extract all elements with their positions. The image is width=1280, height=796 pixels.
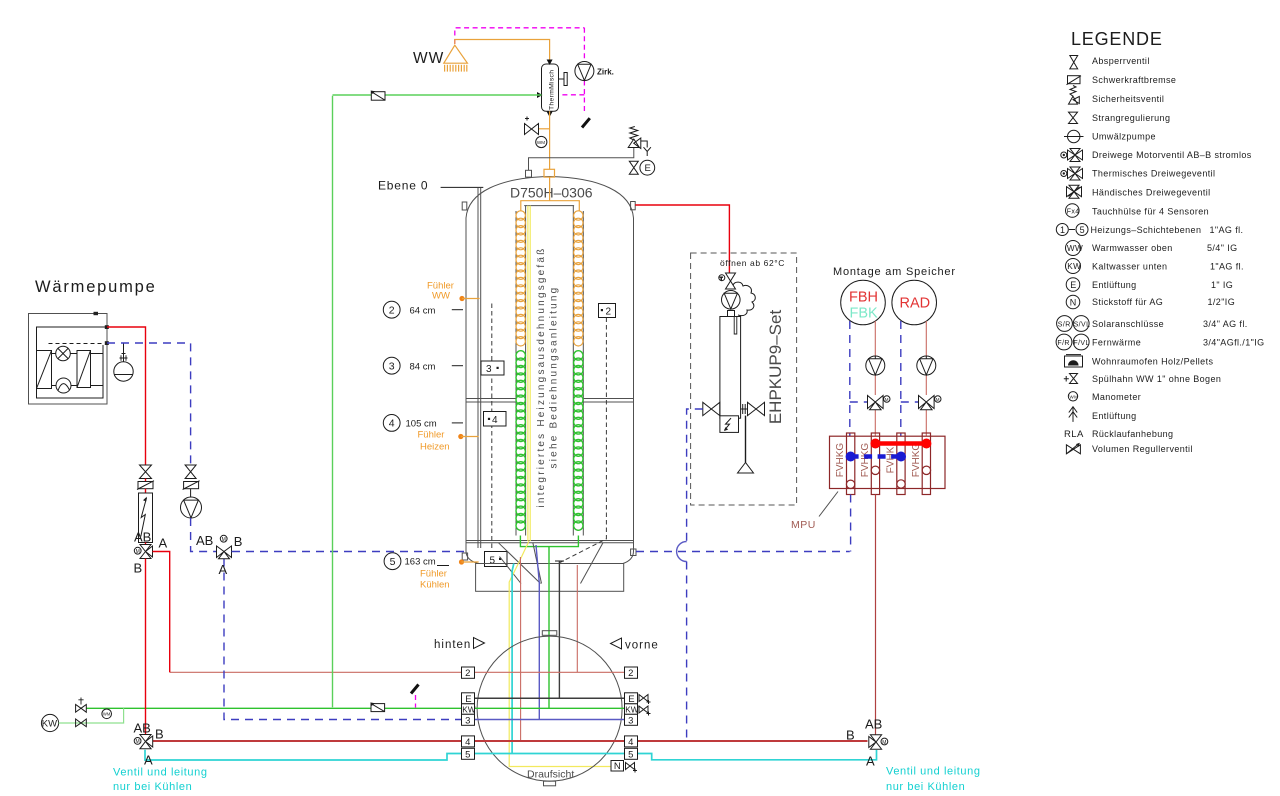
svg-text:3: 3 bbox=[465, 715, 470, 726]
legend icon Tauchhuelse Fx4 bbox=[1066, 204, 1210, 218]
tank side stub bottom-right bbox=[631, 549, 636, 556]
small valve on red feed bbox=[719, 273, 736, 289]
svg-text:1/2"IG: 1/2"IG bbox=[1208, 297, 1236, 307]
wire magenta dashed top: shower to zirk riser bbox=[455, 28, 585, 44]
wire red tank top to EHPKUP bbox=[635, 205, 729, 273]
svg-text:5: 5 bbox=[490, 555, 496, 566]
node E vent circle bbox=[640, 160, 655, 175]
wire blue 3 horizontal inside bbox=[475, 719, 625, 721]
svg-text:AB: AB bbox=[134, 721, 151, 736]
svg-text:Heizungs–Schichtebenen: Heizungs–Schichtebenen bbox=[1091, 225, 1202, 235]
svg-text:nur bei Kühlen: nur bei Kühlen bbox=[886, 781, 965, 791]
svg-text:AB: AB bbox=[196, 533, 213, 548]
sensor box 3 bbox=[481, 361, 504, 375]
wire blue dashed WP return bbox=[107, 343, 191, 465]
svg-text:D750H–0306: D750H–0306 bbox=[510, 185, 593, 201]
valve EHP left bbox=[703, 402, 720, 415]
svg-text:WW: WW bbox=[1067, 244, 1083, 253]
svg-text:5: 5 bbox=[465, 749, 470, 760]
shutoff valve below safety bbox=[629, 161, 638, 174]
check valve blue bbox=[183, 481, 200, 490]
wire blue dashed V2-B right bbox=[231, 551, 234, 553]
wire green KW horizontal inside bbox=[475, 707, 625, 709]
wire red WP supply bbox=[107, 327, 146, 465]
legend icon Schwerkraftbremse bbox=[1067, 75, 1177, 85]
svg-text:163 cm: 163 cm bbox=[405, 557, 436, 568]
svg-text:ThermMisch: ThermMisch bbox=[549, 70, 556, 110]
manometer WM small bbox=[102, 709, 112, 719]
level mark 4 bbox=[383, 415, 463, 432]
svg-text:64 cm: 64 cm bbox=[410, 305, 436, 316]
three-way valve V2 AB-B-A bbox=[196, 533, 242, 577]
svg-text:Thermisches Dreiwegeventil: Thermisches Dreiwegeventil bbox=[1092, 169, 1215, 179]
level mark 2 bbox=[383, 301, 463, 318]
legend icon KW circle bbox=[1066, 259, 1244, 274]
wire red V1-A to level2 bbox=[153, 552, 170, 673]
svg-text:E: E bbox=[628, 694, 634, 705]
svg-text:1"AG fl.: 1"AG fl. bbox=[1210, 225, 1244, 235]
svg-text:S/VL: S/VL bbox=[1074, 321, 1091, 328]
svg-text:FVHKG: FVHKG bbox=[911, 443, 922, 478]
legend icon Umwaelzpumpe bbox=[1064, 130, 1156, 142]
wire green center down bbox=[548, 547, 550, 709]
svg-text:E: E bbox=[645, 163, 651, 174]
legend icon Dreiwege Motorventil bbox=[1061, 149, 1252, 162]
small drain valve at E right bbox=[639, 695, 651, 705]
svg-text:5: 5 bbox=[628, 749, 633, 760]
yellow heater band bbox=[527, 206, 529, 541]
legend icon N circle bbox=[1066, 295, 1235, 309]
steam cloud bbox=[733, 282, 755, 316]
manifold rotated labels bbox=[835, 443, 922, 478]
manifold slots bbox=[846, 433, 930, 495]
svg-text:Schwerkraftbremse: Schwerkraftbremse bbox=[1092, 75, 1176, 85]
svg-text:M: M bbox=[885, 397, 889, 402]
tank side stub top-right bbox=[631, 202, 636, 210]
level mark 3 bbox=[383, 357, 463, 374]
svg-text:4: 4 bbox=[465, 737, 470, 748]
svg-text:FBH: FBH bbox=[849, 290, 878, 306]
svg-text:5: 5 bbox=[390, 556, 396, 568]
legend icon Volumen Regulierventil bbox=[1066, 443, 1192, 454]
wire black E horizontal bbox=[475, 697, 625, 699]
node vorne bbox=[611, 638, 659, 652]
svg-text:4: 4 bbox=[628, 737, 633, 748]
svg-text:RAD: RAD bbox=[900, 296, 931, 312]
level mark 5 bbox=[384, 553, 449, 570]
wire gray vent pipe from tank top bbox=[529, 147, 634, 171]
wire red V1-B down bbox=[145, 559, 147, 735]
wire red main bottom bbox=[153, 740, 868, 742]
wire blue dashed EHP bbox=[687, 409, 703, 542]
svg-text:hinten: hinten bbox=[434, 639, 471, 651]
svg-text:EHPKUP9–Set: EHPKUP9–Set bbox=[766, 310, 785, 425]
thick red jumper bbox=[870, 439, 931, 449]
svg-text:vorne: vorne bbox=[625, 640, 659, 652]
valve on light green bbox=[76, 719, 87, 727]
svg-text:KW: KW bbox=[42, 719, 57, 730]
svg-text:Solaranschlüsse: Solaranschlüsse bbox=[1092, 319, 1164, 329]
svg-text:E: E bbox=[1070, 280, 1076, 290]
pump FBH bbox=[866, 356, 885, 375]
legend icon Solaranschluesse SR SVL bbox=[1057, 316, 1248, 332]
svg-text:B: B bbox=[234, 534, 243, 549]
svg-text:T: T bbox=[720, 276, 723, 281]
sensor channel dashed right bbox=[560, 318, 606, 563]
manometer WM on orange pipe bbox=[536, 136, 547, 147]
check valve red bbox=[137, 481, 154, 490]
svg-text:Kühlen: Kühlen bbox=[420, 580, 450, 591]
pump Zirk. bbox=[575, 62, 614, 81]
heat pump unit box bbox=[29, 314, 108, 405]
svg-text:S/R: S/R bbox=[1058, 321, 1071, 328]
svg-text:WW: WW bbox=[413, 50, 444, 67]
legend icon Absperrventil bbox=[1070, 56, 1150, 69]
wire light red RAD bbox=[925, 321, 927, 357]
small drain valve at KW right bbox=[639, 706, 651, 716]
legend icon Spuelhahn bbox=[1064, 374, 1221, 385]
valve on orange stub bbox=[525, 117, 539, 135]
connection boxes right column bbox=[611, 667, 639, 772]
sensor channel dashed left bbox=[491, 304, 493, 552]
svg-text:A: A bbox=[144, 753, 153, 768]
wire blue dashed slot1 down bbox=[850, 495, 852, 552]
svg-text:RLA: RLA bbox=[1064, 429, 1084, 440]
three-way valve V4 bottom-right bbox=[846, 717, 888, 769]
mixer ThermMisch U bbox=[537, 60, 567, 118]
svg-text:B: B bbox=[155, 727, 164, 742]
legend icon Fernwaerme FR FVL bbox=[1056, 334, 1264, 350]
wire light green KW bbox=[59, 708, 124, 723]
wire green KW horizontal left bbox=[86, 707, 461, 709]
svg-text:Montage am Speicher: Montage am Speicher bbox=[833, 266, 956, 278]
svg-text:Volumen Regullerventil: Volumen Regullerventil bbox=[1092, 444, 1193, 454]
svg-text:Kaltwasser unten: Kaltwasser unten bbox=[1092, 261, 1167, 271]
tank top stub orange bbox=[544, 169, 555, 177]
tank dip tube left bbox=[477, 188, 479, 548]
svg-text:Manometer: Manometer bbox=[1092, 392, 1141, 402]
heat pump internals bbox=[37, 327, 107, 398]
svg-text:AB: AB bbox=[865, 717, 882, 732]
node FBH FBK circle bbox=[841, 280, 886, 325]
legend icon WW circle bbox=[1066, 241, 1238, 256]
sensor Fuehler Heizen bbox=[418, 430, 479, 453]
svg-text:Entlüftung: Entlüftung bbox=[1092, 411, 1137, 421]
expansion vessel bbox=[114, 343, 133, 381]
svg-text:Wärmepumpe: Wärmepumpe bbox=[35, 278, 157, 296]
three-way valve V3 bottom-left bbox=[134, 721, 164, 768]
connection boxes left column bbox=[462, 667, 476, 760]
svg-text:E: E bbox=[465, 694, 471, 705]
small drain valve at N right bbox=[626, 763, 638, 773]
svg-text:integriertes Heizungsausdehnun: integriertes Heizungsausdehnungsgefäß bbox=[536, 247, 547, 508]
tank shell D750H bbox=[466, 177, 634, 564]
sensor Fuehler WW bbox=[427, 281, 480, 302]
sensor box 5 bbox=[485, 552, 508, 567]
legend icon 1-5 Schichtebenen bbox=[1056, 224, 1243, 236]
svg-text:A: A bbox=[866, 754, 875, 769]
svg-text:F/R: F/R bbox=[1057, 340, 1069, 347]
svg-text:105 cm: 105 cm bbox=[406, 419, 437, 430]
wire yellow to N bbox=[509, 541, 611, 767]
wire blue dashed EHP lower bbox=[686, 562, 688, 741]
svg-text:5: 5 bbox=[1080, 225, 1085, 235]
sensor Fuehler Kuehlen bbox=[420, 559, 479, 590]
legend RLA bbox=[1064, 429, 1173, 440]
svg-text:B: B bbox=[134, 561, 143, 576]
legend icon Strangregulierung bbox=[1068, 112, 1170, 123]
svg-text:Wohnraumofen Holz/Pellets: Wohnraumofen Holz/Pellets bbox=[1092, 357, 1213, 367]
expansion vessel inner top bbox=[524, 205, 574, 207]
svg-text:1" IG: 1" IG bbox=[1211, 280, 1233, 290]
svg-text:Zirk.: Zirk. bbox=[597, 68, 614, 77]
funnel diagonals bbox=[499, 543, 604, 584]
wire cyan 5 inside bbox=[475, 753, 625, 755]
svg-text:WM: WM bbox=[1070, 394, 1079, 399]
shutoff valve red bbox=[140, 465, 152, 479]
wire magenta dashed to mixer bbox=[560, 94, 584, 96]
tank side stub bottom-left bbox=[462, 553, 467, 560]
svg-text:Draufsicht: Draufsicht bbox=[527, 769, 574, 781]
svg-text:öffnen ab 62°C: öffnen ab 62°C bbox=[720, 258, 785, 268]
svg-text:Fx4: Fx4 bbox=[1067, 208, 1080, 215]
svg-text:Fühler: Fühler bbox=[418, 430, 445, 441]
svg-text:MPU: MPU bbox=[791, 519, 816, 531]
sensor flag near zirk bbox=[582, 118, 590, 127]
wire cyan right run bbox=[637, 750, 877, 760]
svg-text:Dreiwege Motorventil AB–B stro: Dreiwege Motorventil AB–B stromlos bbox=[1092, 150, 1252, 160]
svg-text:KW: KW bbox=[462, 705, 475, 714]
wire black E down bbox=[558, 561, 560, 698]
coils orange (upper) bbox=[516, 211, 583, 346]
wire light red FBH bbox=[874, 321, 876, 357]
svg-text:Fühler: Fühler bbox=[420, 569, 447, 580]
svg-text:Strangregulierung: Strangregulierung bbox=[1092, 113, 1170, 123]
svg-text:Fernwärme: Fernwärme bbox=[1092, 337, 1141, 347]
three-way valve V1 AB-A-B bbox=[134, 530, 168, 576]
flange + valve EHP right bbox=[741, 402, 765, 415]
green coil bottom U bbox=[520, 536, 578, 547]
check valve Schwerkraftbremse on green bbox=[371, 91, 385, 101]
svg-text:FVHK: FVHK bbox=[885, 446, 896, 473]
legend icon Thermisches Dreiwegeventil bbox=[1061, 167, 1216, 180]
shower head symbol (orange) bbox=[444, 45, 468, 63]
EHPKUP9 dashed enclosure bbox=[691, 253, 797, 505]
wire blue dashed FBH bbox=[849, 321, 851, 436]
svg-text:1"AG fl.: 1"AG fl. bbox=[1210, 261, 1244, 271]
tank seam lines mid bbox=[466, 399, 634, 543]
svg-text:Tauchhülse für 4 Sensoren: Tauchhülse für 4 Sensoren bbox=[1092, 207, 1209, 217]
svg-text:Händisches Dreiwegeventil: Händisches Dreiwegeventil bbox=[1092, 188, 1211, 198]
svg-text:84 cm: 84 cm bbox=[410, 361, 436, 372]
mixing valve RAD bbox=[919, 396, 942, 410]
shutoff valve blue bbox=[185, 465, 196, 479]
wire magenta dashed riser bbox=[583, 28, 585, 62]
EHP pump bbox=[722, 291, 741, 310]
pump RAD bbox=[917, 356, 936, 375]
svg-text:M: M bbox=[136, 549, 140, 555]
svg-text:2: 2 bbox=[628, 668, 633, 679]
svg-text:FBK: FBK bbox=[850, 306, 879, 322]
svg-text:Entlüftung: Entlüftung bbox=[1092, 280, 1137, 290]
svg-text:4: 4 bbox=[389, 418, 395, 430]
wire green long vertical bbox=[332, 96, 334, 708]
svg-text:3: 3 bbox=[486, 364, 492, 375]
coils green (lower) bbox=[516, 351, 583, 531]
wire blue dashed pump to V2 bbox=[191, 518, 217, 552]
wire blue dashed RAD bbox=[900, 321, 902, 436]
coil rails bbox=[516, 206, 583, 536]
svg-text:1: 1 bbox=[1060, 225, 1065, 235]
svg-text:M: M bbox=[882, 740, 886, 746]
svg-text:KW: KW bbox=[625, 705, 638, 714]
svg-text:M: M bbox=[936, 397, 940, 402]
svg-text:3: 3 bbox=[628, 715, 633, 726]
svg-text:siehe Bediehnungsanleitung: siehe Bediehnungsanleitung bbox=[549, 286, 560, 469]
heater box lightning bbox=[720, 416, 739, 433]
legend icon E circle bbox=[1066, 278, 1233, 292]
svg-text:Heizen: Heizen bbox=[420, 442, 450, 453]
svg-text:Spülhahn WW 1" ohne Bogen: Spülhahn WW 1" ohne Bogen bbox=[1092, 374, 1221, 384]
wire light red level2 horizontal bbox=[170, 671, 462, 673]
svg-text:A: A bbox=[219, 562, 228, 577]
svg-text:2: 2 bbox=[606, 307, 612, 318]
svg-text:3: 3 bbox=[389, 361, 395, 373]
wire light red to boxes 4 bbox=[519, 557, 521, 741]
svg-text:FVHKG: FVHKG bbox=[835, 443, 846, 478]
wire blue dashed 3 left bbox=[224, 559, 462, 720]
legend icon Sicherheitsventil bbox=[1069, 86, 1165, 105]
svg-text:A: A bbox=[159, 536, 168, 551]
svg-text:nur bei Kühlen: nur bei Kühlen bbox=[113, 781, 192, 791]
wire cyan inside circle bbox=[512, 564, 514, 754]
wire red slot2 down to V4 bbox=[875, 495, 877, 735]
sensor flag on green bbox=[411, 685, 419, 694]
svg-text:F/VL: F/VL bbox=[1073, 340, 1089, 347]
svg-text:Warmwasser oben: Warmwasser oben bbox=[1092, 243, 1173, 253]
Draufsicht circle bbox=[477, 636, 622, 781]
node RAD circle bbox=[892, 280, 937, 325]
svg-text:WM: WM bbox=[537, 140, 545, 145]
wire orange shower feed bbox=[455, 40, 550, 64]
tank top stub gray bbox=[526, 170, 532, 177]
svg-text:Ebene 0: Ebene 0 bbox=[378, 179, 428, 193]
node KW cold water bbox=[41, 714, 58, 731]
svg-text:Sicherheitsventil: Sicherheitsventil bbox=[1092, 94, 1164, 104]
legend icon Haendisches Dreiwegeventil bbox=[1067, 185, 1211, 198]
svg-text:5/4" IG: 5/4" IG bbox=[1207, 243, 1238, 253]
valve with drain on dark green bbox=[76, 698, 87, 713]
svg-text:N: N bbox=[614, 761, 621, 772]
heater cylinder bbox=[720, 311, 741, 419]
orange coil feed bbox=[549, 177, 551, 201]
wire cyan left run bbox=[145, 750, 462, 760]
svg-text:2: 2 bbox=[465, 668, 470, 679]
hop arc over level5 line bbox=[677, 542, 687, 562]
tank bottom center stub bbox=[555, 560, 564, 562]
svg-text:4: 4 bbox=[492, 415, 498, 426]
mixing valve FBH bbox=[868, 396, 891, 410]
sensor box 2 bbox=[599, 304, 616, 318]
wire blue dashed main level5 bbox=[232, 551, 464, 553]
svg-text:Ventil und leitung: Ventil und leitung bbox=[886, 766, 981, 778]
thick blue dashed jumper bbox=[846, 452, 906, 462]
legend icon Entlueftung arrow bbox=[1069, 407, 1137, 422]
pump on blue bbox=[181, 489, 202, 518]
svg-text:M: M bbox=[136, 739, 140, 745]
svg-text:Stickstoff für AG: Stickstoff für AG bbox=[1092, 297, 1163, 307]
wire blue solid to boxes 3 bbox=[536, 545, 539, 720]
tank pedestal bbox=[476, 564, 624, 592]
svg-text:WW: WW bbox=[432, 291, 450, 302]
svg-text:AB: AB bbox=[134, 530, 151, 545]
drain line + funnel bbox=[738, 416, 754, 473]
legend icon Wohnraumofen bbox=[1065, 355, 1214, 367]
check valve on green bottom bbox=[370, 702, 384, 711]
svg-text:LEGENDE: LEGENDE bbox=[1071, 29, 1163, 49]
tank side stub top-left bbox=[462, 202, 467, 210]
svg-text:M: M bbox=[222, 537, 226, 543]
safety valve Sicherheitsventil bbox=[628, 127, 651, 157]
svg-text:Rücklaufanhebung: Rücklaufanhebung bbox=[1092, 429, 1173, 439]
svg-text:FVHKG: FVHKG bbox=[860, 443, 871, 478]
sensor box 4 bbox=[484, 412, 507, 427]
svg-text:KW: KW bbox=[1067, 262, 1081, 271]
svg-text:3/4" AG fl.: 3/4" AG fl. bbox=[1203, 319, 1248, 329]
svg-text:Absperrventil: Absperrventil bbox=[1092, 56, 1150, 66]
manifold MPU body bbox=[830, 436, 946, 488]
svg-text:WM: WM bbox=[103, 712, 111, 717]
wire orange mixer to tank bbox=[549, 111, 551, 169]
svg-text:Ventil und leitung: Ventil und leitung bbox=[113, 767, 208, 779]
wire light red vorne-2 down bbox=[576, 565, 578, 672]
flow sensor with lightning bbox=[139, 493, 153, 543]
svg-text:Umwälzpumpe: Umwälzpumpe bbox=[1092, 132, 1156, 142]
legend icon Manometer bbox=[1068, 392, 1141, 403]
node hinten bbox=[434, 638, 485, 652]
svg-text:2: 2 bbox=[389, 305, 395, 317]
wire green to mixer bbox=[333, 94, 542, 96]
svg-text:B: B bbox=[846, 728, 855, 743]
svg-text:3/4"AGfl./1"IG: 3/4"AGfl./1"IG bbox=[1203, 337, 1265, 347]
svg-text:N: N bbox=[1070, 297, 1077, 307]
